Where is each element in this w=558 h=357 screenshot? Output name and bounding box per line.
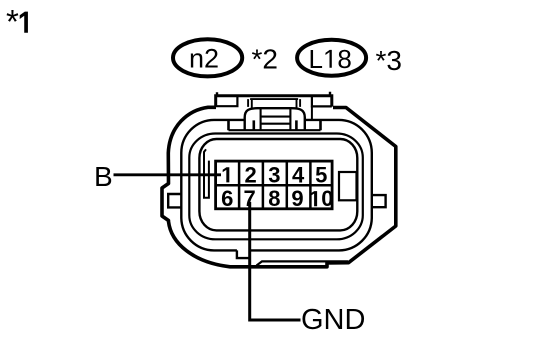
svg-text:0: 0	[321, 186, 333, 211]
svg-text:B: B	[94, 161, 113, 192]
svg-text:*2: *2	[252, 43, 278, 74]
svg-text:*: *	[6, 3, 19, 40]
svg-text:GND: GND	[301, 304, 365, 336]
svg-text:4: 4	[292, 162, 305, 187]
svg-text:3: 3	[268, 162, 280, 187]
svg-text:5: 5	[315, 162, 327, 187]
svg-text:8: 8	[337, 44, 351, 74]
svg-text:6: 6	[221, 186, 233, 211]
svg-text:L: L	[309, 44, 323, 74]
svg-text:2: 2	[244, 162, 256, 187]
svg-text:n2: n2	[189, 43, 219, 73]
svg-text:9: 9	[291, 186, 303, 211]
svg-text:*3: *3	[376, 45, 402, 76]
svg-text:8: 8	[268, 186, 280, 211]
